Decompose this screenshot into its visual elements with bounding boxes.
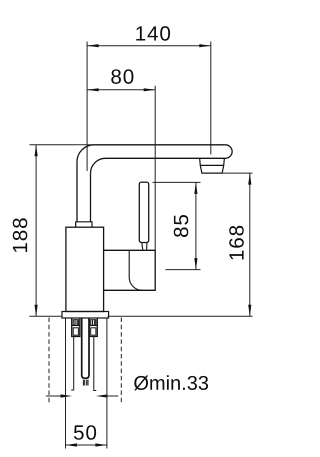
dimension 80 label	[111, 69, 133, 84]
dimension 140 arrows	[87, 44, 211, 47]
threaded stud	[82, 318, 89, 378]
dimension 168 arrows	[248, 173, 251, 316]
spout outer bend	[77, 145, 94, 162]
dimension 188 arrows	[35, 145, 38, 316]
hole diameter right arrow	[96, 394, 118, 397]
spout inner bend	[91, 158, 106, 173]
riser flange	[76, 222, 92, 227]
dimension 140 line	[87, 45, 211, 47]
dimension 80 extension line	[154, 86, 156, 251]
right hose box	[91, 328, 96, 335]
body	[66, 227, 104, 311]
dimension 140 extension lines	[87, 42, 211, 172]
riser pipe	[77, 162, 91, 222]
dimension 85 label	[174, 215, 189, 237]
dimension 168 line	[249, 173, 251, 316]
spout bottom outline	[106, 157, 226, 159]
right hose tube	[94, 337, 97, 391]
hole boundary dashed line right	[120, 318, 122, 405]
right hose nut	[91, 320, 96, 326]
spout top outline	[94, 144, 225, 146]
dimension 168 bottom reference line	[108, 315, 253, 317]
handle hub joint	[129, 250, 142, 290]
dimension 85 line	[195, 182, 197, 269]
dimension 85 top reference line	[153, 181, 201, 183]
dimension 168 top reference line	[223, 172, 253, 174]
dimension 50 label	[74, 425, 96, 440]
spout end cap	[225, 145, 232, 159]
left hose fitting	[72, 318, 80, 337]
dimension 188 top reference line	[30, 144, 95, 146]
stud prongs	[83, 380, 88, 386]
left hose nut	[73, 320, 78, 326]
hole diameter left arrow	[46, 394, 72, 397]
dimension 50 arrows	[66, 443, 107, 446]
lever handle	[139, 182, 148, 242]
left hose tube	[71, 337, 74, 391]
dimension 80 line	[87, 89, 155, 91]
dimension 50 line	[66, 444, 107, 446]
hole boundary dashed line left	[48, 318, 50, 405]
handle boss	[104, 250, 156, 290]
right hose fitting	[89, 318, 97, 337]
left hose box	[73, 328, 78, 335]
lever stem	[142, 243, 147, 250]
dimension 168 label	[229, 226, 244, 260]
dimension 50 extension lines	[66, 319, 107, 449]
dimension 188 bottom reference line	[30, 315, 63, 317]
dimension 85 bottom reference line	[166, 269, 201, 271]
dimension 85 arrows	[194, 182, 197, 269]
dimension 188 line	[35, 145, 37, 316]
dimension 188 label	[13, 218, 28, 252]
base plate	[62, 312, 109, 319]
dimension 80 arrows	[87, 88, 155, 91]
hole diameter label	[134, 375, 208, 390]
dimension 140 label	[136, 26, 170, 41]
aerator	[200, 159, 225, 173]
